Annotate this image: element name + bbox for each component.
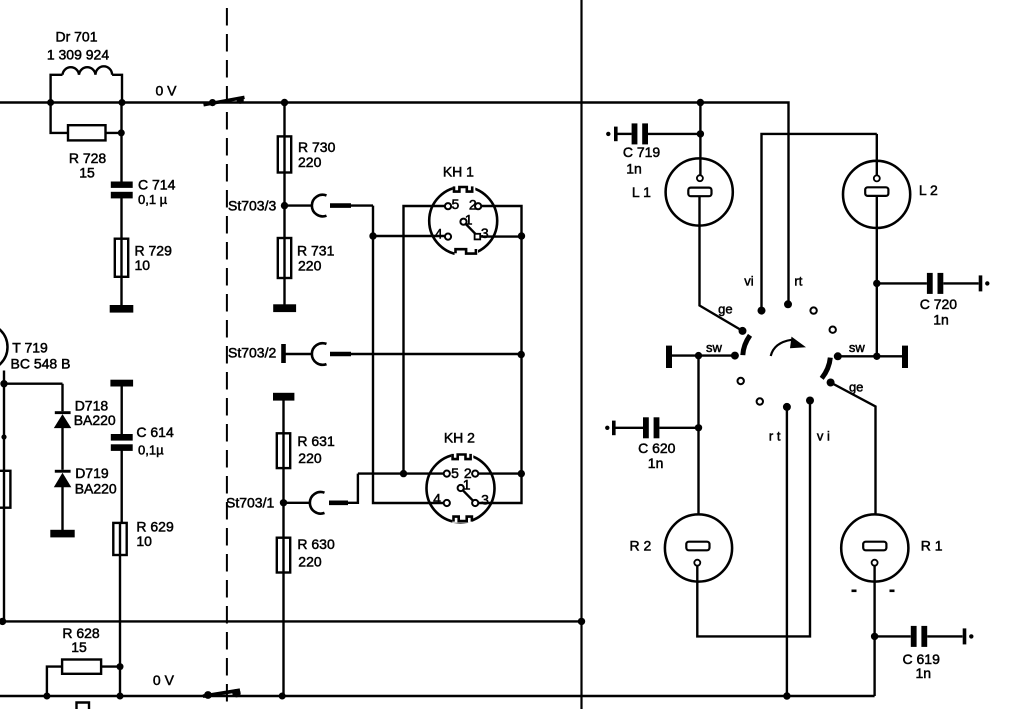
wire left vertical below T719 [3, 371, 5, 622]
svg-text:ge: ge [718, 302, 732, 317]
svg-text:0 V: 0 V [155, 83, 177, 99]
node C719 junction [697, 130, 704, 137]
svg-text:L 1: L 1 [632, 184, 651, 200]
svg-text:0,1µ: 0,1µ [138, 443, 164, 458]
wire rt bottom to 0V [786, 407, 788, 696]
svg-text:1: 1 [465, 212, 473, 228]
svg-text:1n: 1n [916, 665, 932, 681]
capacitor C714 [112, 183, 132, 239]
svg-text:3: 3 [481, 225, 489, 241]
transistor T719 [0, 324, 8, 371]
resistor R629 [113, 523, 126, 696]
KH2 pin 5 [444, 471, 450, 477]
component cut at bottom edge [77, 703, 90, 709]
wire R2 bottom to vi contact [697, 404, 810, 636]
rotary open contact [810, 307, 816, 313]
rotary open contact [830, 327, 836, 333]
KH2 pin 2 [472, 471, 478, 477]
svg-text:sw: sw [706, 340, 723, 355]
svg-text:v i: v i [817, 429, 830, 444]
wire bus y=621 [2, 620, 582, 622]
rotary contact rt top [784, 300, 792, 308]
terminal bar above C614 [112, 381, 132, 385]
svg-text:220: 220 [298, 154, 322, 170]
terminal (C720 right) [981, 275, 990, 291]
svg-text:1n: 1n [626, 161, 642, 177]
resistor R731 [278, 238, 291, 278]
ground below diodes [52, 531, 74, 536]
wire Dr701 node down to C714 [120, 103, 122, 184]
inductor Dr701 [51, 66, 122, 102]
node St703/1 [280, 499, 287, 506]
svg-text:BA220: BA220 [75, 481, 117, 497]
KH2 pin 3 [472, 500, 478, 506]
svg-text:C 720: C 720 [920, 296, 958, 312]
resistor R630 [277, 538, 290, 573]
node C720 junction [873, 280, 880, 287]
terminal (C620 left) [605, 421, 614, 436]
wire KH1 pin3 to node [481, 235, 522, 237]
wire 0V bottom rail [0, 695, 875, 697]
svg-text:L 2: L 2 [919, 182, 938, 198]
KH1 pin 5 [445, 203, 451, 209]
resistor R631 [277, 433, 290, 468]
speaker jack L2 [843, 161, 910, 228]
svg-text:BA220: BA220 [74, 412, 116, 428]
rotary arrow [771, 337, 806, 356]
svg-text:10: 10 [135, 257, 151, 273]
wire L2 top [876, 134, 878, 176]
KH2 switch contact 1-3 [463, 490, 474, 501]
speaker jack R2 [665, 514, 732, 581]
svg-text:R 2: R 2 [630, 538, 652, 554]
wire rt top (joins 0V rail corner) [787, 301, 789, 304]
svg-text:rt: rt [794, 274, 802, 289]
svg-text:4: 4 [435, 226, 443, 242]
rotary contact ge right [827, 379, 835, 387]
section divider line [580, 0, 582, 709]
svg-text:R 730: R 730 [298, 139, 336, 155]
rotary contact rt bottom [783, 403, 791, 411]
node junctions R628 [43, 663, 285, 699]
node KH2 pin5 bus [400, 470, 407, 477]
node KH1 right [518, 232, 525, 239]
svg-text:BC 548 B: BC 548 B [11, 356, 71, 372]
speaker jack L1 [666, 158, 733, 225]
svg-text:C 719: C 719 [623, 144, 661, 160]
svg-text:220: 220 [298, 258, 322, 274]
capacitor C719 [618, 123, 701, 144]
svg-text:ge: ge [849, 380, 863, 395]
node right vertical at KH2 [518, 470, 525, 477]
svg-text:1n: 1n [933, 312, 949, 328]
svg-text:15: 15 [79, 164, 95, 180]
svg-text:5: 5 [452, 196, 460, 212]
svg-text:5: 5 [451, 465, 459, 481]
svg-text:Dr 701: Dr 701 [55, 29, 97, 45]
wire R730 chain from 0V rail [283, 103, 285, 309]
wire L1 to ge contact [700, 196, 743, 331]
connector St703/2 socket+plug [286, 343, 522, 365]
svg-text:220: 220 [298, 450, 322, 466]
KH2 pin 1 [458, 485, 464, 491]
connector St703/3 socket+plug [285, 195, 374, 217]
svg-text:1n: 1n [648, 455, 664, 471]
svg-text:4: 4 [433, 491, 441, 507]
diode D719 [54, 470, 72, 531]
wire 0V top rail [0, 103, 789, 302]
capacitor C720 [877, 273, 979, 294]
svg-text:0 V: 0 V [153, 672, 175, 688]
speaker jack R1 [841, 514, 908, 581]
svg-text:C 714: C 714 [138, 177, 176, 193]
wire to KH1 pin 4 [373, 235, 445, 237]
connector St703/2 pin bar [281, 344, 286, 363]
svg-text:15: 15 [71, 639, 87, 655]
node C620 junction [695, 424, 702, 431]
node C619 junction [871, 633, 878, 640]
switch in 0V bottom rail [203, 689, 241, 699]
KH1 pin 1 [460, 219, 466, 225]
resistor R729 [115, 239, 128, 307]
wire vi top to L2 [762, 134, 877, 311]
svg-text:r t: r t [769, 429, 781, 444]
node sw-right junction [873, 353, 880, 360]
wire St703/3 to KH1 pin4 / KH2 pin4 [373, 206, 444, 503]
svg-text:St703/1: St703/1 [226, 495, 274, 511]
rotary wiper right [822, 358, 831, 379]
ground below R731 [274, 306, 295, 311]
node St703/3 [281, 202, 288, 209]
connector St703/1 socket+plug [284, 474, 358, 514]
svg-text:R 731: R 731 [297, 243, 335, 259]
wire ge right to R1 [831, 383, 876, 515]
KH1 pin 3 [475, 234, 481, 240]
rotary contact sw left [731, 352, 739, 360]
resistor R728 [51, 103, 122, 141]
terminal (C719 left) [606, 127, 616, 142]
wire R631/R630 chain [282, 399, 284, 696]
rotary open contact [738, 378, 744, 384]
KH1 pin 4 [445, 234, 451, 240]
svg-text:0,1 µ: 0,1 µ [138, 192, 168, 207]
wire KH1 pin2 right and down [481, 206, 522, 236]
DIN socket KH2 [427, 451, 495, 523]
terminal bar sw right [902, 346, 908, 368]
ground below R729 [111, 306, 132, 311]
node on that wire [369, 232, 376, 239]
wire L2 down to sw right [876, 196, 878, 356]
dashed boundary line [226, 8, 228, 709]
KH1 pin numbers [435, 196, 489, 242]
wire KH sockets left bus [358, 472, 444, 474]
svg-text:220: 220 [298, 554, 322, 570]
rotary contact vi bottom [806, 397, 814, 405]
terminal bar sw left [666, 346, 672, 368]
svg-text:T 719: T 719 [12, 340, 48, 356]
svg-text:R 630: R 630 [297, 536, 335, 552]
KH2 pin 4 [444, 500, 450, 506]
node left end of bus [0, 618, 6, 625]
capacitor C620 [616, 417, 699, 438]
svg-text:D718: D718 [75, 397, 109, 413]
svg-text:R 1: R 1 [921, 538, 943, 554]
rotary contact sw right [834, 352, 842, 360]
rotary open contact [757, 398, 763, 404]
svg-text:1: 1 [463, 477, 471, 493]
wire R1 bottom [873, 566, 875, 696]
KH1 pin 2 [475, 203, 481, 209]
svg-text:KH 1: KH 1 [443, 164, 474, 180]
svg-text:vi: vi [744, 274, 754, 289]
terminal (C619 right) [965, 628, 974, 644]
DIN socket KH1 [429, 183, 497, 257]
svg-text:sw: sw [849, 340, 866, 355]
capacitor C614 [112, 385, 132, 523]
svg-text:St703/2: St703/2 [228, 345, 276, 361]
node 0V rail / rt branch [697, 99, 704, 106]
resistor R730 [278, 136, 291, 172]
rotary contact ge left [739, 327, 747, 335]
rotary contact vi top [758, 307, 766, 315]
node R730 top [281, 99, 288, 106]
wire L1 top branch [699, 103, 701, 176]
node: junctions Dr701/R728 [47, 99, 125, 136]
wire sw left [672, 354, 735, 356]
resistor R628 [47, 660, 120, 697]
capacitor C619 [875, 626, 963, 647]
svg-text:KH 2: KH 2 [444, 430, 475, 446]
resistor (left edge, partially cut) [0, 471, 10, 508]
svg-text:D719: D719 [75, 465, 109, 481]
scan specks below R1 [852, 590, 857, 593]
svg-text:C 620: C 620 [638, 440, 676, 456]
node sw-left junction [695, 352, 702, 359]
svg-text:1 309 924: 1 309 924 [47, 46, 109, 62]
node rt / 0V rail [783, 692, 790, 699]
node junction left/diode branch [0, 380, 7, 387]
wire sw right [838, 355, 902, 357]
rotary wiper left [743, 335, 750, 355]
svg-text:3: 3 [481, 492, 489, 508]
diode D718 [54, 411, 72, 470]
wire sw left down to R2 [697, 356, 699, 515]
switch in 0V top rail [204, 97, 245, 107]
wire KH1 pin5 to KH2 bus [404, 206, 446, 474]
wire to diodes [4, 384, 63, 412]
node St703/2 wire end [518, 351, 525, 358]
wire KH2 pin2 to right vertical [478, 472, 521, 474]
terminal bar above R631 [274, 394, 293, 399]
KH1 switch contact 1-3 [465, 224, 475, 235]
KH2 pin numbers [433, 465, 489, 508]
wire right vertical KH1-KH2 [478, 236, 521, 503]
svg-text:10: 10 [136, 533, 152, 549]
node bus end at divider [578, 618, 585, 625]
svg-text:St703/3: St703/3 [228, 198, 276, 214]
svg-text:C 614: C 614 [136, 424, 174, 440]
svg-text:R 631: R 631 [297, 433, 335, 449]
svg-text:2: 2 [469, 197, 477, 213]
